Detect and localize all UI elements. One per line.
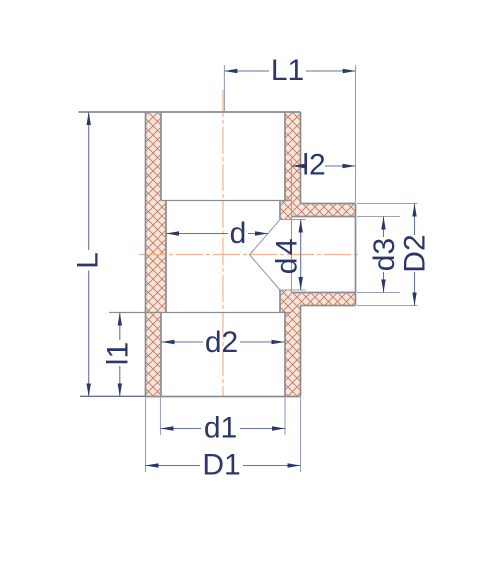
svg-text:d3: d3 (368, 238, 401, 271)
svg-text:L1: L1 (271, 54, 304, 87)
svg-text:L: L (72, 252, 105, 269)
svg-text:D2: D2 (399, 234, 432, 272)
svg-text:D1: D1 (202, 449, 240, 482)
svg-text:l1: l1 (102, 342, 135, 365)
svg-text:l2: l2 (302, 149, 325, 182)
svg-text:d4: d4 (270, 236, 303, 274)
svg-text:d2: d2 (205, 326, 238, 359)
svg-text:d: d (230, 217, 247, 250)
svg-text:d1: d1 (204, 412, 237, 445)
